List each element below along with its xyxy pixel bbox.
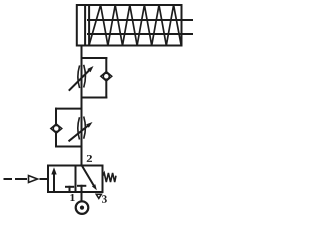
flow control valve FC1 bypass loop [82,58,107,98]
valve return spring [103,173,116,182]
pressure source circle [76,201,89,214]
wire cylinder port [81,46,83,59]
flow control valve FC2 bypass loop [56,109,82,147]
port label 3 [102,195,107,202]
throttle FC1 adjustment arrow [70,66,94,90]
left box flow path arrow [51,167,56,191]
throttle FC2 arcs [78,117,86,138]
left box blocked port T [66,187,73,192]
check valve FC1 [101,72,112,81]
pilot arrowhead open triangle [29,176,38,183]
port label 1 [70,194,74,201]
wire FC2 to valve port 2 [81,147,83,166]
port label 2 [87,155,92,162]
right box blocked port 1 T [78,186,85,192]
wire port 1 to source [81,192,83,201]
piston rod [88,20,192,34]
3/2 valve body right box [76,166,103,193]
right box flow path 2 to 3 arrow [82,166,97,191]
throttle FC2 adjustment arrow [69,122,92,141]
check valve FC2 [51,124,62,133]
cylinder body (single-acting cylinder) [77,5,182,46]
exhaust port 3 triangle [96,194,101,198]
return spring [89,5,181,46]
pilot signal dashed line [5,178,49,180]
wire FC2 main branch [81,109,83,147]
piston [85,5,89,46]
wire FC1 main branch [81,58,83,98]
throttle FC1 arcs [78,66,86,88]
wire between FC1 and FC2 [81,98,83,109]
3/2 valve body left box [48,166,76,193]
